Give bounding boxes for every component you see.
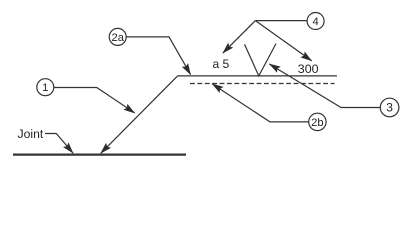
svg-text:Joint: Joint <box>18 127 44 141</box>
svg-text:2a: 2a <box>111 32 124 44</box>
Joint label leader wire <box>45 134 73 154</box>
identification dashed line (element 2b) <box>190 83 335 85</box>
callout 2a wire <box>126 37 191 75</box>
svg-text:2b: 2b <box>311 117 323 129</box>
svg-text:4: 4 <box>312 16 318 28</box>
callout 4 arrow to a5 <box>223 21 256 54</box>
callout 1 wire <box>54 88 135 113</box>
reference line (element 2a) <box>178 75 337 77</box>
joint line (workpiece) <box>13 153 186 155</box>
svg-text:1: 1 <box>42 82 48 94</box>
arrow line (element 1) <box>101 76 178 153</box>
svg-text:300: 300 <box>298 62 319 76</box>
callout 4 arrow to 300 <box>255 21 311 61</box>
callout 3 wire <box>269 64 380 108</box>
callout 4 wire <box>255 20 307 22</box>
callout 3 circle <box>380 98 399 117</box>
callout 2b wire <box>212 84 309 122</box>
svg-text:3: 3 <box>386 101 393 115</box>
callout 4 circle <box>307 13 324 30</box>
callout 1 circle <box>37 79 54 96</box>
svg-text:a 5: a 5 <box>213 57 230 71</box>
callout 2b circle <box>309 113 326 130</box>
callout 2a circle <box>109 28 126 45</box>
weld symbol V (element 3) <box>245 44 277 76</box>
